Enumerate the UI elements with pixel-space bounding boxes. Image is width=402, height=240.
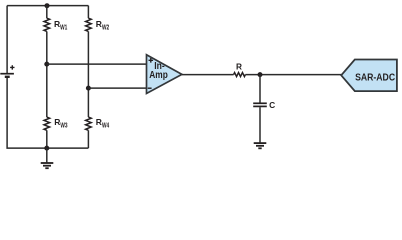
wire: left branch middle bbox=[46, 31, 48, 117]
resistor RW2 bbox=[86, 18, 110, 31]
ground (bridge) bbox=[41, 148, 54, 168]
resistor RW1 bbox=[44, 18, 67, 31]
wire: left branch bottom stub bbox=[46, 130, 48, 148]
wire: right branch bottom stub bbox=[87, 130, 89, 148]
svg-text:RW3: RW3 bbox=[54, 117, 67, 129]
wire: bridge top rail bbox=[7, 5, 88, 7]
resistor RW4 bbox=[86, 117, 110, 130]
node: left bridge output bbox=[44, 62, 49, 67]
node: top of left branch bbox=[45, 3, 50, 8]
node: right bridge output bbox=[86, 86, 91, 91]
wire: capacitor to ground bbox=[259, 107, 261, 142]
wire: +input from left bridge output to in-amp bbox=[47, 63, 147, 65]
resistor R bbox=[234, 62, 246, 77]
wire: left branch top stub bbox=[46, 6, 48, 19]
svg-text:RW1: RW1 bbox=[54, 19, 67, 31]
capacitor C bbox=[253, 100, 275, 110]
wire: down to capacitor bbox=[259, 75, 261, 103]
wire: -input from right bridge output to in-amp bbox=[88, 87, 146, 89]
wire: right branch top stub bbox=[87, 6, 89, 19]
op-amp U1 In-Amp bbox=[147, 55, 182, 94]
SAR-ADC block bbox=[341, 60, 397, 92]
node: RC junction bbox=[258, 72, 263, 77]
wire: bridge left side lower and bottom rail bbox=[7, 78, 88, 148]
svg-text:SAR-ADC: SAR-ADC bbox=[355, 73, 395, 84]
svg-text:C: C bbox=[269, 100, 275, 110]
wire: in-amp output to R bbox=[182, 74, 234, 76]
svg-text:R: R bbox=[236, 62, 242, 72]
wire: bridge left side upper (to battery) bbox=[6, 6, 8, 73]
ground (capacitor) bbox=[254, 143, 267, 148]
svg-text:Amp: Amp bbox=[149, 70, 168, 81]
node: bridge ground junction bbox=[44, 146, 49, 151]
svg-text:RW2: RW2 bbox=[96, 19, 109, 31]
resistor RW3 bbox=[44, 117, 68, 130]
battery V+ bbox=[0, 65, 14, 77]
wire: right branch middle bbox=[87, 31, 89, 117]
wire: R to SAR-ADC bbox=[245, 74, 341, 76]
svg-text:RW4: RW4 bbox=[96, 117, 109, 129]
